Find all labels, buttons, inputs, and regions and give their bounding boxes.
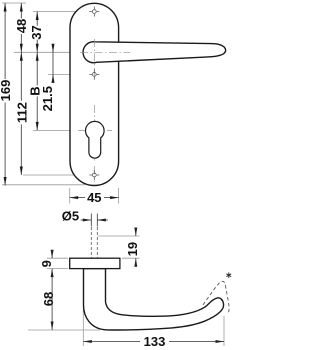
svg-text:21.5: 21.5	[40, 86, 55, 111]
svg-text:Ø5: Ø5	[62, 209, 79, 224]
svg-text:37: 37	[29, 25, 44, 39]
svg-text:48: 48	[14, 19, 29, 33]
svg-text:45: 45	[87, 190, 101, 205]
svg-text:68: 68	[41, 292, 56, 306]
svg-text:112: 112	[14, 102, 29, 123]
svg-text:169: 169	[0, 80, 13, 102]
svg-text:19: 19	[125, 242, 140, 256]
svg-text:9: 9	[39, 260, 54, 267]
svg-text:133: 133	[144, 334, 166, 349]
